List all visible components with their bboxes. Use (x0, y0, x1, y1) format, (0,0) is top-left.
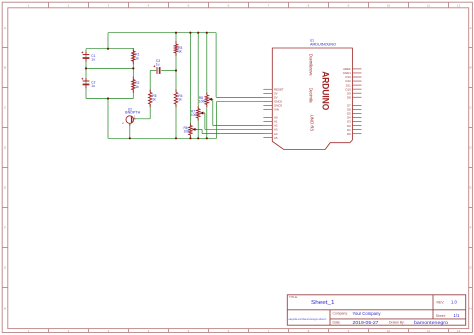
pin D5 (352, 112, 361, 114)
svg-text:ARDUINOUNO: ARDUINOUNO (310, 42, 336, 47)
wire right column R2 branch (132, 68, 134, 98)
svg-text:4: 4 (148, 3, 150, 7)
title block frame (287, 295, 465, 325)
wire R6 wiper drop (201, 129, 203, 133)
capacitor C2 1u (polarized) (85, 78, 87, 81)
wire R3 to R4 / node C3R (175, 53, 177, 93)
junction at 198.2,32.7 (197, 32, 199, 34)
wire GND2 (217, 100, 264, 102)
pin 5V (263, 96, 272, 98)
wire R6 wiper stub (197, 128, 202, 130)
wire GND2 drop to ground rail (216, 101, 218, 138)
svg-text:Sheet:: Sheet: (436, 314, 446, 318)
svg-text:12: 12 (457, 3, 461, 7)
svg-text:F: F (4, 226, 6, 230)
pin GND2 (263, 100, 272, 102)
junction at 206.8,138.3 (206, 137, 208, 139)
wire C3 right lead to node (161, 70, 176, 72)
wire rail to pot R8 (206, 33, 208, 95)
svg-text:F: F (470, 226, 472, 230)
svg-text:E: E (4, 186, 6, 190)
pin D8 (352, 96, 361, 98)
pin A1 (263, 120, 272, 122)
pin D7 (352, 104, 361, 106)
wire mic to ground rail (129, 124, 131, 139)
wire rail to 5V pin (215, 33, 217, 98)
junction at 198.2,138.3 (197, 137, 199, 139)
wire to A2 (213, 125, 264, 127)
svg-text:1k: 1k (152, 98, 156, 102)
wire R8 to ground rail (206, 104, 208, 138)
pin AREF (352, 68, 361, 70)
svg-text:5: 5 (188, 3, 190, 7)
op-amp U1 ARDUINOUNO body (272, 48, 352, 150)
svg-text:1u: 1u (91, 58, 95, 62)
svg-text:2: 2 (68, 3, 70, 7)
svg-text:11: 11 (427, 329, 430, 333)
svg-text:BNOPTH: BNOPTH (125, 111, 141, 115)
wire R5 to mic node (149, 104, 151, 119)
svg-text:1u: 1u (91, 84, 95, 88)
resistor R1 1k (132, 48, 134, 51)
pin D0 (352, 133, 361, 135)
pin D11 (352, 84, 361, 86)
microphone U2 BNOPTH (126, 116, 134, 124)
svg-text:1u: 1u (156, 62, 160, 66)
pin A2 (263, 125, 272, 127)
wire R7 wiper drop (204, 113, 206, 130)
svg-text:8: 8 (308, 3, 310, 7)
svg-text:ARDUINO: ARDUINO (321, 71, 331, 110)
wire mic output (134, 118, 150, 120)
svg-text:A: A (4, 26, 6, 30)
svg-text:bamontenegro: bamontenegro (414, 320, 449, 325)
svg-text:11: 11 (427, 3, 430, 7)
pin D12 (352, 80, 361, 82)
svg-text:12: 12 (457, 329, 461, 333)
svg-text:Drawn By:: Drawn By: (389, 321, 405, 325)
border column ticks and numbers (48, 2, 50, 8)
wire R4 to ground rail (175, 104, 177, 138)
wire ground rail (108, 137, 217, 139)
svg-text:Your Company: Your Company (353, 311, 382, 316)
pin A5 (263, 137, 272, 139)
pin A3 (263, 129, 272, 131)
svg-text:3: 3 (108, 3, 110, 7)
pin D6 (352, 108, 361, 110)
pin 3V (263, 92, 272, 94)
resistor R2 1k (132, 77, 134, 80)
svg-text:TITLE:: TITLE: (289, 295, 298, 299)
junction at 206.8,32.7 (206, 32, 208, 34)
pin D10 (352, 88, 361, 90)
wire left column C2 branch (85, 68, 87, 98)
wire R6 to ground rail (189, 135, 191, 138)
svg-text:Duemilanove: Duemilanove (308, 54, 313, 76)
svg-text:Sheet_1: Sheet_1 (311, 300, 335, 306)
wire R7 to ground rail (197, 118, 199, 138)
resistor R5 1k (149, 89, 151, 92)
wire R8 wiper drop (212, 99, 214, 125)
svg-text:A: A (469, 26, 471, 30)
svg-text:100: 100 (184, 130, 190, 134)
wire C3 to R5 (149, 71, 151, 93)
junction at 86,68.4 (85, 67, 87, 69)
svg-text:UNO R3: UNO R3 (309, 115, 314, 132)
junction at 190.4,138.3 (189, 137, 191, 139)
svg-text:1k: 1k (135, 85, 139, 89)
wire divider mid node (86, 67, 133, 69)
svg-text:VIN: VIN (274, 108, 279, 112)
pin GND3 (263, 105, 272, 107)
wire rail drop to divider loop (107, 33, 109, 49)
svg-text:H: H (4, 306, 6, 310)
wire rail to R3 (175, 33, 177, 45)
svg-text:1k: 1k (135, 56, 139, 60)
svg-text:1k: 1k (178, 49, 182, 53)
svg-text:REV:: REV: (437, 300, 445, 304)
svg-text:Company:: Company: (333, 312, 349, 316)
pin D9 (352, 92, 361, 94)
capacitor C1 1u (polarized) (85, 52, 87, 55)
junction at 108,98.5 (107, 97, 109, 99)
wire rail to pot R7 (197, 33, 199, 109)
svg-text:Decimila: Decimila (308, 88, 313, 104)
pin D3 (352, 121, 361, 123)
svg-text:G: G (4, 266, 7, 270)
wire divider loop top (86, 48, 133, 50)
pin D2 (352, 125, 361, 127)
resistor R3 1k (175, 41, 177, 44)
potentiometer R8 100k (206, 93, 208, 96)
junction at 129.8,138.3 (129, 137, 131, 139)
wire to A3 (205, 129, 264, 131)
junction at 133.3,68.4 (132, 67, 134, 69)
pin D13 (352, 76, 361, 78)
wire right column R1 branch (132, 49, 134, 69)
wire divider loop bottom (86, 98, 133, 100)
svg-text:D0: D0 (347, 132, 351, 136)
svg-text:C: C (4, 106, 7, 110)
wire 5V (216, 96, 263, 98)
svg-text:1: 1 (134, 114, 136, 118)
svg-text:E: E (469, 186, 471, 190)
pin GND1 (352, 72, 361, 74)
svg-text:6: 6 (228, 3, 230, 7)
svg-text:easyeda.com/bamontenegro-sheet: easyeda.com/bamontenegro-sheet-1 (289, 317, 327, 321)
svg-text:9: 9 (348, 3, 350, 7)
wire loop bottom to ground rail (107, 99, 109, 139)
svg-text:B: B (469, 66, 471, 70)
svg-text:D: D (4, 146, 7, 150)
pin D4 (352, 117, 361, 119)
svg-text:1: 1 (28, 3, 30, 7)
pin D1 (352, 129, 361, 131)
wire rail to pot R6 (189, 33, 191, 126)
svg-text:7: 7 (268, 3, 270, 7)
junction at 108,48.7 (107, 48, 109, 50)
svg-text:A5: A5 (274, 136, 278, 140)
junction at 176,70.5 (175, 69, 177, 71)
junction at 190.4,32.7 (189, 32, 191, 34)
pin RESET (263, 88, 272, 90)
svg-text:B: B (4, 66, 6, 70)
potentiometer R6 100 (189, 123, 191, 126)
junction at 176,32.7 (175, 32, 177, 34)
potentiometer R7 100k (197, 106, 199, 109)
svg-text:10: 10 (387, 3, 391, 7)
resistor R4 1k (175, 89, 177, 92)
svg-text:1k: 1k (178, 98, 182, 102)
svg-text:1/1: 1/1 (454, 313, 460, 318)
wire top VCC rail (108, 32, 216, 34)
svg-text:G: G (469, 266, 472, 270)
capacitor C3 1u (horizontal) (156, 67, 158, 74)
svg-text:10: 10 (387, 329, 391, 333)
pin VIN (263, 109, 272, 111)
svg-text:100k: 100k (199, 99, 206, 103)
svg-text:H: H (469, 306, 471, 310)
svg-text:D8: D8 (347, 95, 351, 99)
border row ticks and letters (2, 47, 8, 49)
svg-text:1.0: 1.0 (451, 299, 457, 304)
wire C3 left lead (150, 70, 156, 72)
svg-text:Date:: Date: (333, 321, 341, 325)
wire to A4 (202, 133, 263, 135)
svg-text:2019-05-27: 2019-05-27 (353, 320, 380, 325)
svg-text:100k: 100k (191, 113, 198, 117)
pin A0 (263, 116, 272, 118)
svg-text:2: 2 (122, 121, 124, 125)
pin A4 (263, 133, 272, 135)
junction at 176,138.3 (175, 137, 177, 139)
wire left column C1 branch (85, 49, 87, 69)
